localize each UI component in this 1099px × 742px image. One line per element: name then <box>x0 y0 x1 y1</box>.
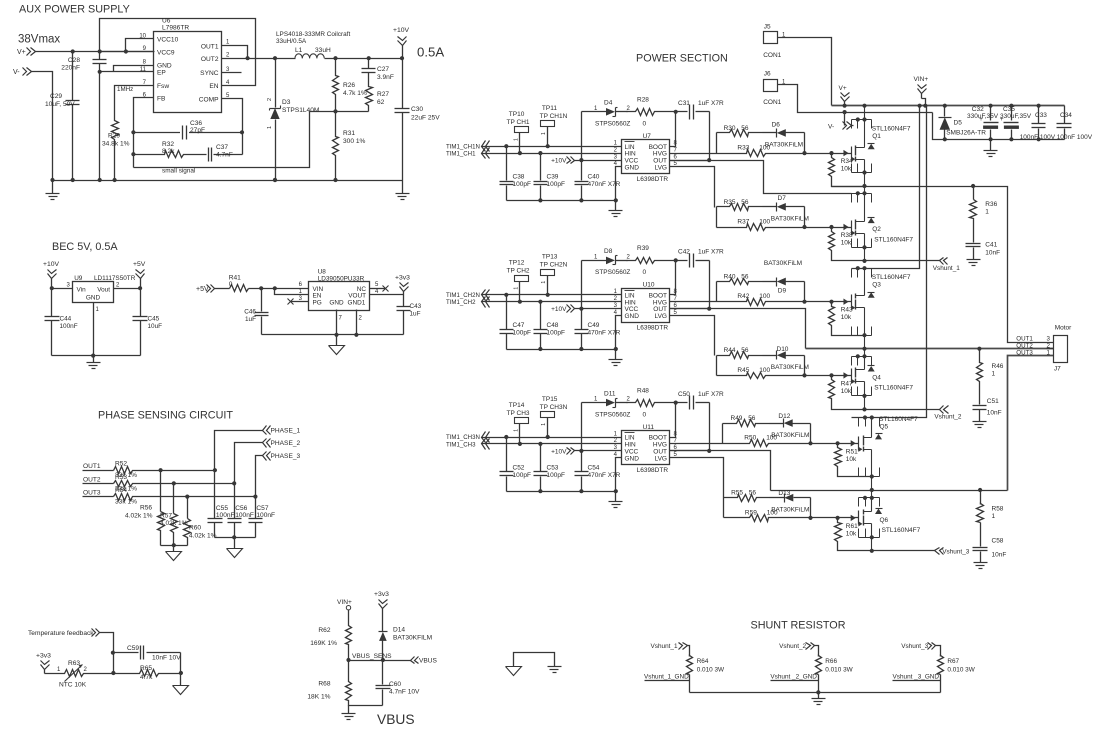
capacitor C41 <box>966 220 981 260</box>
junction V+ rail <box>1037 104 1041 108</box>
svg-text:VCC10: VCC10 <box>157 36 179 43</box>
svg-text:+5V: +5V <box>133 261 146 268</box>
label C47 <box>513 322 531 337</box>
testpoint TP14 <box>515 418 529 444</box>
power +10V <box>393 27 410 59</box>
port Vshunt_3 <box>901 643 935 651</box>
svg-text:PHASE_3: PHASE_3 <box>271 453 301 460</box>
label R29 <box>102 133 130 148</box>
svg-text:100nF 100V: 100nF 100V <box>1057 134 1093 141</box>
ground C58 <box>974 563 988 569</box>
gate arrow <box>843 372 848 378</box>
diode D3 STPS1L40M <box>270 59 281 181</box>
wire L1 to +10V rail <box>325 58 403 60</box>
svg-text:C50: C50 <box>678 391 690 398</box>
wire HVG1 to network <box>670 153 717 155</box>
resistor R34 <box>829 154 865 187</box>
junction V+ rail <box>943 104 947 108</box>
ground legend earth <box>548 667 562 673</box>
svg-text:1: 1 <box>514 429 520 432</box>
junction <box>273 56 277 60</box>
junction <box>538 151 542 155</box>
svg-text:STL160N4F7: STL160N4F7 <box>874 385 913 392</box>
svg-text:Q5: Q5 <box>880 423 889 430</box>
svg-text:C41: C41 <box>985 242 997 249</box>
wire Vshunt_3 to R67 <box>936 646 941 657</box>
label C39 <box>547 174 565 189</box>
resistor R53 <box>114 481 134 487</box>
junction C29/V+ <box>71 49 75 53</box>
wire R50 row right <box>796 443 859 445</box>
wire phase1 to J7 <box>974 187 1054 343</box>
ground C51 <box>973 422 987 428</box>
svg-text:LVG: LVG <box>654 313 667 320</box>
power +10V port <box>551 305 574 314</box>
svg-text:Vshunt _3_GND: Vshunt _3_GND <box>893 674 940 681</box>
port Temperature feedback <box>28 629 100 638</box>
junction <box>614 198 618 202</box>
svg-text:GND: GND <box>625 165 640 172</box>
svg-text:56: 56 <box>741 274 749 281</box>
svg-text:10nF 10V: 10nF 10V <box>152 655 181 662</box>
junction <box>504 293 508 297</box>
ground driver <box>609 350 623 366</box>
ground driver <box>609 492 623 508</box>
port PHASE_3 <box>263 452 301 461</box>
wire FB <box>134 98 154 168</box>
net label VBUS_SENS <box>352 653 392 660</box>
label R68 <box>307 681 330 701</box>
label D8 <box>594 248 631 276</box>
svg-text:R37: R37 <box>737 218 749 225</box>
svg-text:TP12: TP12 <box>509 260 525 267</box>
label D9 BAT30KFILM <box>764 260 802 295</box>
junction <box>179 671 183 675</box>
wire U9 vout <box>114 288 141 290</box>
label C54 <box>588 464 621 479</box>
wire OUT3 driver path <box>670 451 771 491</box>
label C34 <box>1057 112 1093 141</box>
diode D13 BAT30KFILM <box>784 494 810 518</box>
net label OUT2 <box>83 476 114 483</box>
svg-text:D7: D7 <box>778 195 787 202</box>
label R65 <box>140 665 153 681</box>
wire phase vertical PHASE_2 <box>235 443 263 484</box>
resistor R56 <box>158 471 165 546</box>
svg-text:10uF: 10uF <box>148 323 163 330</box>
svg-text:D4: D4 <box>604 100 613 107</box>
ground C41 <box>967 260 981 266</box>
wire R65 to gnd corner <box>161 673 181 675</box>
wire gnd rail <box>53 180 403 182</box>
ground U8 <box>329 335 345 355</box>
resistor R66 <box>816 656 822 675</box>
svg-text:C37: C37 <box>216 144 228 151</box>
net label TIM1_CH2N <box>446 290 490 301</box>
capacitor C35 330uF <box>1000 106 1019 140</box>
capacitor C28 <box>93 52 107 181</box>
svg-text:U6: U6 <box>162 18 171 25</box>
wire VCC9 <box>100 51 154 53</box>
junction <box>978 488 982 492</box>
wire R33 row right <box>796 153 852 155</box>
capacitor C52 <box>500 438 514 492</box>
svg-text:1: 1 <box>267 126 273 129</box>
svg-text:R55: R55 <box>731 490 743 497</box>
pin numbers driver right <box>674 289 678 316</box>
svg-text:0: 0 <box>229 281 233 288</box>
wire R37 row right <box>796 227 852 229</box>
label R61 <box>846 523 858 538</box>
label R27 <box>377 91 389 106</box>
svg-text:R45: R45 <box>737 367 749 374</box>
junction <box>518 442 522 446</box>
svg-text:STPS0560Z: STPS0560Z <box>595 121 630 128</box>
junction C55 top <box>213 468 217 472</box>
wire R45 row right <box>796 375 852 377</box>
net label Vshunt_1_GND <box>644 674 690 681</box>
svg-text:100: 100 <box>759 218 770 225</box>
net label OUT2 <box>1016 342 1050 349</box>
resistor R54 <box>114 494 134 501</box>
svg-text:CON1: CON1 <box>763 52 781 59</box>
wire VCC to D vertical <box>581 403 583 451</box>
connector J5 CON1 <box>764 32 778 44</box>
svg-text:C35: C35 <box>1003 106 1015 113</box>
svg-text:+10V: +10V <box>393 27 410 34</box>
junction <box>333 56 337 60</box>
capacitor C54 <box>575 451 589 492</box>
label C52 <box>513 464 531 479</box>
wire Vshunt_1 row <box>865 260 940 262</box>
junction <box>862 259 866 263</box>
gate arrow <box>843 224 848 230</box>
svg-text:C38: C38 <box>513 174 525 181</box>
wire R67 bottom <box>940 675 942 693</box>
label C29 <box>45 93 75 108</box>
diode D7 BAT30KFILM <box>777 203 805 228</box>
resistor R44 <box>717 352 777 376</box>
svg-text:TP11: TP11 <box>542 105 557 112</box>
svg-text:BAT30KFiLM: BAT30KFiLM <box>771 364 809 371</box>
svg-text:R33: R33 <box>737 145 749 152</box>
ground left <box>46 181 60 200</box>
net label Vshunt _2_GND <box>770 674 818 681</box>
capacitor C30 <box>395 59 410 181</box>
svg-text:33k 1%: 33k 1% <box>115 499 137 506</box>
wire U9 gnd <box>93 303 95 356</box>
svg-text:Q3: Q3 <box>872 282 881 289</box>
svg-text:C29: C29 <box>50 93 62 100</box>
svg-text:R61: R61 <box>846 523 858 530</box>
wire driver gnd rail <box>507 491 616 493</box>
label TP15 <box>540 396 568 426</box>
svg-text:Vshunt_1_GND: Vshunt_1_GND <box>644 674 689 681</box>
junction <box>111 671 115 675</box>
junction <box>538 347 542 351</box>
junction <box>172 543 176 547</box>
junction <box>836 516 840 520</box>
label D7 <box>771 195 809 222</box>
label R26 <box>343 82 367 97</box>
wire R41 to U8 <box>249 288 309 290</box>
label R45 <box>737 367 770 374</box>
wire VCC to D vertical <box>581 112 583 161</box>
label R58 <box>992 506 1004 521</box>
testpoint TP10 <box>515 127 529 154</box>
svg-text:OUT1: OUT1 <box>1016 335 1033 342</box>
label R40 <box>724 274 749 281</box>
label C49 <box>588 322 621 337</box>
label C41 <box>985 242 1000 257</box>
capacitor C56 <box>228 484 242 538</box>
label 0.5A <box>417 45 444 60</box>
svg-text:R53: R53 <box>115 474 127 481</box>
svg-text:62: 62 <box>377 99 385 106</box>
junction V+ rail <box>923 104 927 108</box>
label C55 <box>216 505 235 519</box>
ground pulldowns <box>166 546 182 561</box>
svg-text:Vshunt_1: Vshunt_1 <box>933 265 960 272</box>
wire HIN row <box>482 301 622 303</box>
svg-text:2: 2 <box>1047 342 1051 349</box>
wire OUT1 driver path <box>670 161 852 194</box>
label small signal <box>162 168 195 175</box>
wire VCC10 <box>126 39 154 52</box>
svg-text:1: 1 <box>541 132 547 135</box>
label U9 <box>74 275 136 282</box>
wire driver gnd <box>616 458 622 492</box>
wire OUT2 row to J7 <box>1047 348 1054 350</box>
ground bulk caps <box>984 140 998 157</box>
svg-text:100: 100 <box>759 367 770 374</box>
label R42 <box>737 293 770 300</box>
resistor R36 <box>970 187 977 220</box>
svg-text:GND: GND <box>86 295 101 302</box>
svg-text:R51: R51 <box>846 448 858 455</box>
svg-text:TIM1_CH2: TIM1_CH2 <box>446 299 476 306</box>
svg-text:BAT30KFiLM: BAT30KFiLM <box>771 432 809 439</box>
svg-text:R26: R26 <box>343 82 355 89</box>
svg-text:BAT30KFiLM: BAT30KFiLM <box>771 507 809 514</box>
power +10V port <box>551 448 574 456</box>
svg-text:C28: C28 <box>68 57 80 64</box>
label C38 <box>513 174 531 189</box>
label D12 <box>771 413 809 439</box>
junction <box>829 300 833 304</box>
label TP13 <box>540 254 568 284</box>
svg-text:J5: J5 <box>764 24 771 31</box>
svg-text:100nF 100V: 100nF 100V <box>1020 134 1056 141</box>
junction <box>538 489 542 493</box>
svg-text:LD1117S50TR: LD1117S50TR <box>94 275 136 282</box>
svg-text:D8: D8 <box>604 248 613 255</box>
junction <box>674 110 678 114</box>
wire COMP <box>222 99 243 155</box>
label 1MHz <box>117 86 133 93</box>
pin numbers driver left <box>614 141 618 168</box>
wire phase1 rail <box>832 186 974 188</box>
svg-text:1: 1 <box>541 423 547 426</box>
transistor Q5 STL160N4F7 <box>849 415 883 490</box>
testpoint TP13 <box>541 270 555 295</box>
junction <box>504 435 508 439</box>
svg-text:C46: C46 <box>244 309 256 316</box>
svg-text:C53: C53 <box>547 464 559 471</box>
junction <box>674 258 678 262</box>
net label OUT3 <box>83 490 114 497</box>
junction <box>518 300 522 304</box>
svg-text:R50: R50 <box>744 435 756 442</box>
label R60 <box>189 525 217 540</box>
wire +3v3 to R63 <box>45 673 63 675</box>
svg-text:Vout: Vout <box>97 287 110 294</box>
gate driver U10 L6398DTR box <box>622 289 670 323</box>
wire LVG3 jog <box>670 458 724 498</box>
gate driver U11 L6398DTR box <box>622 431 670 465</box>
label C59 <box>127 645 181 662</box>
label 38Vmax <box>18 34 60 46</box>
capacitor C49 <box>575 309 589 350</box>
junction VCC10/V+ <box>124 49 128 53</box>
svg-text:OUT1: OUT1 <box>201 44 219 51</box>
svg-text:D3: D3 <box>282 99 291 106</box>
label C32 <box>967 106 999 120</box>
wire EN <box>275 289 309 295</box>
svg-text:R29: R29 <box>108 133 120 140</box>
junction <box>802 300 806 304</box>
label D4 <box>594 100 631 128</box>
wire C42 to OUT <box>670 261 710 309</box>
svg-text:D12: D12 <box>778 413 790 420</box>
junction <box>367 56 371 60</box>
power +3v3 u8 <box>395 275 410 295</box>
label Q4 <box>872 374 913 391</box>
svg-text:C60: C60 <box>389 681 401 688</box>
svg-text:L1: L1 <box>295 47 303 54</box>
port V+ <box>17 48 36 57</box>
junction V+ rail <box>862 104 866 108</box>
label Q3 <box>872 274 911 289</box>
wire HVG2 to network <box>670 301 717 303</box>
label R67 <box>947 658 975 674</box>
svg-text:100pF: 100pF <box>547 330 565 337</box>
wire driver gnd <box>616 167 622 201</box>
svg-text:L7986TR: L7986TR <box>162 25 189 32</box>
svg-text:TP CH2N: TP CH2N <box>540 262 568 269</box>
wire Vshunt_2 row <box>865 409 940 411</box>
pin label R63 1 <box>57 667 61 673</box>
power +5V bec <box>133 261 146 289</box>
wire LIN row <box>482 294 622 296</box>
svg-text:R68: R68 <box>318 681 330 688</box>
svg-text:10k: 10k <box>841 166 852 173</box>
label R66 <box>825 658 853 674</box>
label R33 <box>737 145 770 152</box>
resistor R51 <box>835 444 872 477</box>
wire LVG2 jog <box>670 316 715 356</box>
diode D10 BAT30KFILM <box>777 351 805 376</box>
svg-text:8.2k: 8.2k <box>162 148 175 155</box>
svg-text:R57: R57 <box>160 513 172 520</box>
svg-text:C39: C39 <box>547 174 559 181</box>
capacitor C38 <box>500 147 514 201</box>
svg-text:R35: R35 <box>724 199 736 206</box>
svg-text:R42: R42 <box>737 293 749 300</box>
label D14 <box>393 627 432 642</box>
junction <box>614 347 618 351</box>
diode D5 SMBJ26A-TR <box>939 106 952 140</box>
pin numbers driver left <box>614 289 618 316</box>
label R56 <box>125 505 153 520</box>
svg-text:VIN+: VIN+ <box>914 76 929 83</box>
junction R60 top <box>185 495 189 499</box>
svg-text:U9: U9 <box>74 275 83 282</box>
title BEC 5V, 0.5A <box>52 241 118 253</box>
svg-text:R66: R66 <box>825 658 837 665</box>
label C56 <box>235 505 254 519</box>
junction <box>546 293 550 297</box>
svg-text:BAT30KFILM: BAT30KFILM <box>393 635 432 642</box>
svg-text:0.5A: 0.5A <box>417 45 444 60</box>
label C44 <box>60 316 78 331</box>
pin label D3 <box>267 98 273 129</box>
label C27 <box>377 66 394 81</box>
svg-text:LPS4018-333MR Coilcraft: LPS4018-333MR Coilcraft <box>276 31 350 38</box>
wire V- cap rail <box>933 113 1065 140</box>
svg-text:R59: R59 <box>745 509 757 516</box>
svg-text:STL160N4F7: STL160N4F7 <box>874 236 913 243</box>
label TP12 <box>507 260 530 290</box>
junction <box>977 347 981 351</box>
svg-text:+10V: +10V <box>551 306 567 313</box>
svg-text:220nF: 220nF <box>61 65 80 72</box>
svg-text:R44: R44 <box>724 347 736 354</box>
capacitor C45 <box>133 289 148 356</box>
resistor R68 <box>346 681 352 702</box>
svg-text:BAT30KFiLM: BAT30KFiLM <box>764 260 802 267</box>
wire pulldown gnd rail <box>161 545 188 547</box>
svg-text:D10: D10 <box>777 346 789 353</box>
svg-text:0: 0 <box>643 269 647 276</box>
junction <box>1009 137 1013 141</box>
svg-text:TP14: TP14 <box>509 402 525 409</box>
svg-text:+3v3: +3v3 <box>36 653 51 660</box>
capacitor C36 <box>180 126 189 140</box>
resistor R30 <box>717 130 777 154</box>
label Q2 <box>872 226 913 243</box>
svg-text:56: 56 <box>741 347 749 354</box>
regulator U9 LD1117S50TR box <box>73 282 114 303</box>
capacitor C46 <box>255 289 269 335</box>
svg-text:U11: U11 <box>643 424 655 431</box>
label R30 <box>724 125 749 132</box>
label D3 <box>282 99 319 114</box>
wire U8 vout to +3v3 <box>370 294 404 296</box>
wire OUT1 row <box>134 470 215 472</box>
wire phase2 rail <box>806 348 1054 350</box>
svg-text:3.9nF: 3.9nF <box>377 74 394 81</box>
junction V+ rail <box>989 104 993 108</box>
label J6 <box>763 71 786 107</box>
diode D4 STPS0560Z <box>582 108 628 117</box>
terminal VIN+ vbus <box>337 599 352 610</box>
label R47 <box>841 380 853 395</box>
title PHASE SENSING CIRCUIT <box>98 410 233 422</box>
svg-text:TIM1_CH3N: TIM1_CH3N <box>446 434 480 441</box>
wire LIN row <box>482 437 622 439</box>
diode D14 BAT30KFILM <box>379 632 388 661</box>
